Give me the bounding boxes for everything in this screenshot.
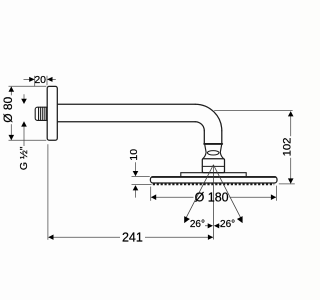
svg-text:10: 10: [128, 149, 140, 161]
nut mid line: [202, 165, 224, 167]
dim 241 ext line left: [47, 144, 49, 240]
dim 10 arrow down: [133, 171, 139, 176]
G half arrow up: [21, 121, 27, 126]
arm drop tube: [204, 131, 222, 144]
dim 26 arrow tails: [205, 225, 222, 227]
dim 10 ext bottom: [132, 183, 152, 185]
dim O180 ext left: [150, 187, 152, 201]
dim O80 ext top: [9, 85, 47, 87]
svg-text:G ½": G ½": [18, 146, 30, 170]
dim 102 line upper: [290, 112, 292, 136]
dim 102 arrow down: [288, 178, 294, 183]
dim O180 ext right: [275, 186, 277, 201]
ball ellipse: [207, 151, 219, 155]
dim 10 stem bottom: [135, 190, 137, 198]
dim 102 ext top: [214, 110, 292, 112]
svg-text:26°: 26°: [190, 219, 205, 230]
dim O180 line right segment: [230, 196, 277, 198]
dim O80 ext bottom: [9, 139, 47, 141]
svg-text:241: 241: [122, 231, 143, 245]
dim 10 arrow up: [133, 185, 139, 190]
dim 102 arrow up: [288, 111, 294, 116]
disc top edge accent: [152, 176, 276, 178]
dim O80 line upper: [10, 87, 12, 95]
dim 20 arrow left-pointing: [47, 77, 53, 82]
spray left arrowhead: [184, 216, 190, 223]
dim 241 line right segment: [145, 236, 213, 238]
spray right 26 deg line: [213, 165, 241, 218]
dim 26 arrow left-pointing: [214, 223, 219, 228]
spray cone lines: [186, 165, 241, 240]
dim 241 arrow left: [48, 235, 53, 240]
dim O180 arrow right: [271, 194, 276, 200]
shower arm horizontal tube: [57, 104, 196, 122]
joint line under tube: [204, 143, 222, 145]
svg-text:Ø 180: Ø 180: [195, 191, 229, 205]
dim O80 arrow down: [9, 135, 15, 140]
svg-text:Ø 80: Ø 80: [1, 96, 15, 122]
svg-text:20: 20: [34, 74, 46, 86]
arm elbow: [195, 104, 222, 131]
dim 20 ext line right: [46, 76, 48, 85]
wall flange escutcheon: [47, 86, 57, 140]
dimension thin lines: [9, 76, 295, 240]
dim 10 ext top: [132, 176, 150, 178]
dim 20 tail right: [52, 78, 56, 80]
dim O180 line left segment: [151, 196, 193, 198]
spray left 26 deg line: [186, 165, 214, 218]
G half stem top: [23, 94, 25, 99]
G1/2 thread nipple: [35, 107, 47, 120]
dim 10 stem top: [135, 162, 137, 171]
dim 20 ext line left: [34, 76, 36, 87]
spray centerline: [212, 165, 214, 240]
dim 241 arrow right: [208, 235, 213, 240]
spray right arrowhead: [237, 216, 243, 223]
svg-text:102: 102: [281, 138, 293, 157]
dim 102 line lower: [290, 158, 292, 183]
G half arrow down: [21, 99, 27, 104]
dim 26 arrow right-pointing: [208, 223, 213, 228]
dim O80 arrow up: [9, 87, 15, 92]
dim 20 arrow right-pointing: [29, 77, 35, 82]
dim 20 tail left: [24, 78, 30, 80]
thread hatch lines: [39, 107, 47, 120]
head disc: [150, 177, 277, 183]
head upper plate: [181, 173, 246, 177]
connector nut: [202, 159, 224, 173]
dim 102 ext bottom: [279, 183, 295, 185]
dim 241 line left segment: [49, 236, 120, 238]
arrowheads: [9, 77, 294, 240]
G half stem bottom: [23, 126, 25, 146]
svg-text:26°: 26°: [220, 219, 235, 230]
dim O80 line lower: [10, 124, 12, 140]
ball joint cup: [203, 145, 224, 159]
nozzle strip: [153, 183, 274, 185]
dim O180 arrow left: [151, 194, 156, 200]
